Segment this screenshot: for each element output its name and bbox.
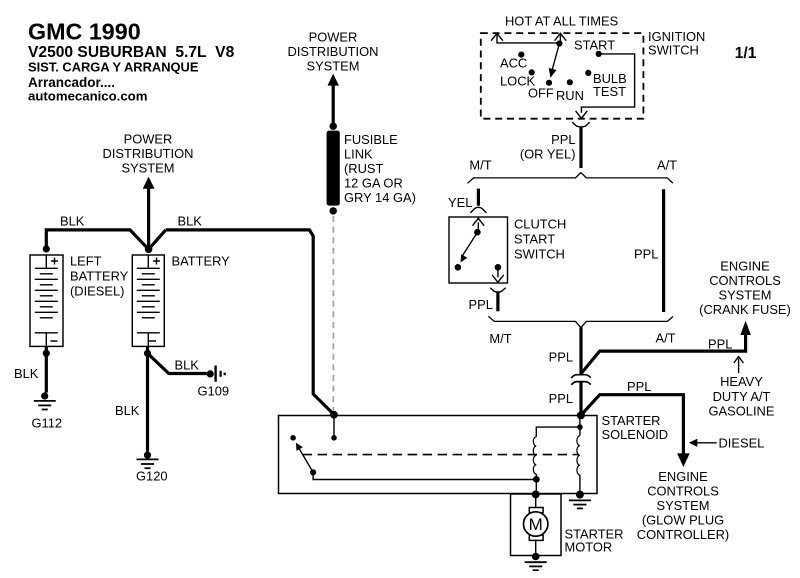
- svg-text:GMC 1990: GMC 1990: [28, 19, 141, 45]
- svg-text:CLUTCH: CLUTCH: [514, 217, 566, 232]
- svg-text:A/T: A/T: [657, 157, 677, 172]
- svg-text:V2500 SUBURBAN 5.7L V8: V2500 SUBURBAN 5.7L V8: [28, 44, 235, 61]
- svg-text:G109: G109: [198, 384, 230, 399]
- svg-text:ACC: ACC: [500, 56, 527, 71]
- svg-text:SIST. CARGA Y ARRANQUE: SIST. CARGA Y ARRANQUE: [28, 60, 199, 75]
- svg-text:BATTERY: BATTERY: [70, 269, 129, 284]
- svg-text:12 GA OR: 12 GA OR: [344, 176, 403, 191]
- svg-text:automecanico.com: automecanico.com: [28, 89, 147, 104]
- svg-text:OFF: OFF: [528, 86, 554, 101]
- svg-text:1/1: 1/1: [735, 45, 757, 62]
- svg-text:GRY 14 GA): GRY 14 GA): [344, 190, 416, 205]
- svg-text:CONTROLS: CONTROLS: [709, 273, 781, 288]
- svg-text:YEL: YEL: [448, 195, 472, 210]
- svg-text:HOT AT ALL TIMES: HOT AT ALL TIMES: [505, 14, 618, 29]
- svg-text:BATTERY: BATTERY: [172, 254, 231, 269]
- svg-text:BLK: BLK: [14, 366, 39, 381]
- svg-text:PPL: PPL: [627, 379, 651, 394]
- svg-text:CONTROLLER): CONTROLLER): [637, 527, 729, 542]
- svg-text:ENGINE: ENGINE: [720, 259, 770, 274]
- svg-text:RUN: RUN: [556, 88, 584, 103]
- svg-text:M/T: M/T: [469, 157, 491, 172]
- svg-text:POWER: POWER: [124, 132, 173, 147]
- svg-text:GASOLINE: GASOLINE: [709, 404, 775, 419]
- svg-text:(CRANK FUSE): (CRANK FUSE): [699, 302, 791, 317]
- svg-text:DIESEL: DIESEL: [719, 435, 765, 450]
- svg-text:START: START: [514, 232, 555, 247]
- svg-text:FUSIBLE: FUSIBLE: [344, 132, 398, 147]
- svg-text:(OR YEL): (OR YEL): [520, 147, 576, 162]
- svg-text:PPL: PPL: [551, 132, 575, 147]
- svg-text:G112: G112: [32, 416, 63, 431]
- svg-text:BLK: BLK: [175, 358, 200, 373]
- svg-text:DISTRIBUTION: DISTRIBUTION: [103, 146, 194, 161]
- svg-text:HEAVY: HEAVY: [720, 374, 763, 389]
- svg-text:DUTY A/T: DUTY A/T: [713, 389, 771, 404]
- svg-text:(DIESEL): (DIESEL): [70, 284, 124, 299]
- svg-text:SYSTEM: SYSTEM: [656, 498, 709, 513]
- svg-text:BLK: BLK: [115, 403, 140, 418]
- svg-text:SWITCH: SWITCH: [648, 43, 699, 58]
- svg-text:PPL: PPL: [708, 337, 732, 352]
- svg-text:DISTRIBUTION: DISTRIBUTION: [288, 44, 379, 59]
- svg-text:BLK: BLK: [60, 214, 85, 229]
- svg-text:BLK: BLK: [178, 214, 203, 229]
- svg-text:POWER: POWER: [309, 30, 358, 45]
- svg-text:PPL: PPL: [634, 247, 658, 262]
- svg-text:MOTOR: MOTOR: [565, 540, 613, 555]
- svg-text:M/T: M/T: [489, 331, 511, 346]
- svg-text:LEFT: LEFT: [70, 254, 102, 269]
- svg-text:PPL: PPL: [469, 297, 493, 312]
- svg-text:(GLOW PLUG: (GLOW PLUG: [642, 513, 724, 528]
- svg-text:A/T: A/T: [655, 331, 675, 346]
- svg-text:M: M: [529, 515, 543, 534]
- svg-text:LINK: LINK: [344, 147, 373, 162]
- svg-text:ENGINE: ENGINE: [658, 469, 708, 484]
- svg-text:SWITCH: SWITCH: [514, 247, 565, 262]
- svg-text:SYSTEM: SYSTEM: [121, 161, 174, 176]
- svg-text:SYSTEM: SYSTEM: [718, 288, 771, 303]
- svg-text:(RUST: (RUST: [344, 161, 384, 176]
- svg-text:STARTER: STARTER: [602, 413, 661, 428]
- svg-text:SOLENOID: SOLENOID: [602, 427, 669, 442]
- svg-text:PPL: PPL: [549, 391, 573, 406]
- svg-text:PPL: PPL: [549, 350, 573, 365]
- svg-text:TEST: TEST: [593, 84, 626, 99]
- svg-text:START: START: [574, 37, 615, 52]
- svg-text:CONTROLS: CONTROLS: [647, 484, 719, 499]
- svg-text:G120: G120: [136, 469, 168, 484]
- svg-text:SYSTEM: SYSTEM: [306, 59, 359, 74]
